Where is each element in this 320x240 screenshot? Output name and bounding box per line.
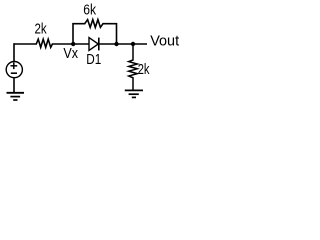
svg-text:2k: 2k bbox=[138, 62, 150, 78]
svg-text:Vout: Vout bbox=[150, 34, 179, 50]
svg-text:2k: 2k bbox=[35, 22, 48, 38]
svg-text:6k: 6k bbox=[83, 3, 96, 19]
svg-text:D1: D1 bbox=[86, 52, 101, 68]
svg-text:Vx: Vx bbox=[63, 46, 78, 62]
